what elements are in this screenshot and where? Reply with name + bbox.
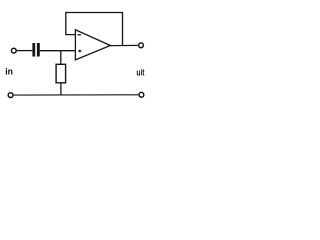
op-amp U1 — [75, 30, 110, 60]
svg-text:uit: uit — [136, 68, 145, 79]
capacitor C left plate — [32, 43, 35, 57]
capacitor C right plate — [37, 43, 40, 57]
wire: op-amp output — [110, 44, 137, 46]
svg-text:in: in — [5, 67, 13, 78]
wire: junction drop to resistor R — [60, 51, 62, 65]
resistor R — [56, 64, 66, 83]
output terminal (uit) — [139, 43, 144, 48]
ground terminal right — [139, 92, 144, 97]
input terminal (in) — [11, 48, 16, 53]
wire: capacitor to op-amp non-inverting input — [40, 50, 76, 52]
ground rail wire — [13, 94, 138, 96]
ground terminal left — [8, 93, 13, 98]
wire: feedback loop from output to inverting input — [66, 13, 123, 46]
wire: input terminal to capacitor — [17, 50, 33, 52]
wire: resistor R to ground rail — [60, 83, 62, 95]
